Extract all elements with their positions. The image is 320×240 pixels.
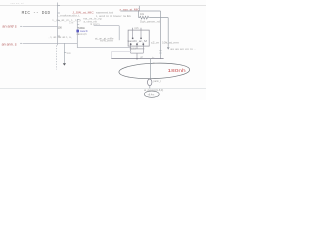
pin tick 2 (58, 12, 61, 14)
wire net2 horizontal (23, 42, 78, 44)
pin tick 1 (58, 5, 61, 7)
pin below 1 (130, 46, 132, 49)
svg-text:MIC -- DGD: MIC -- DGD (22, 11, 51, 16)
rail wire (111, 58, 163, 60)
svg-text:c2_m: c2_m (151, 42, 159, 45)
svg-text:sanmd,h: sanmd,h (76, 33, 87, 36)
svg-text:an ann. s: an ann. s (2, 43, 17, 47)
bracket bottom bar (131, 52, 144, 54)
wire stub down to resistor (138, 11, 140, 18)
pin tick c (77, 33, 79, 35)
pin tick (64, 52, 66, 54)
pin inner 2 (140, 30, 142, 39)
faint box top edge (111, 51, 131, 53)
ground arrow (63, 63, 66, 65)
pin tick (77, 18, 79, 20)
wire vertical right B (167, 18, 169, 47)
inductor L1 body (148, 79, 152, 86)
pin inner bottom 2 (136, 43, 138, 46)
svg-text:t,_m_at_m_t,_t,_y: t,_m_at_m_t,_t,_y (53, 19, 83, 22)
highlighted pin (blue) (76, 30, 79, 33)
svg-text:m/h_mm: m/h_mm (100, 40, 113, 43)
svg-text:kanchi_an_M: kanchi_an_M (128, 40, 147, 43)
bracket left side (130, 49, 132, 53)
wire branch vertical (63, 43, 65, 63)
top border rule (0, 5, 206, 7)
pin stub top 2 (140, 28, 142, 31)
bracket center lead (136, 53, 138, 59)
wire from resistor (150, 17, 168, 19)
svg-text:Dgh_param_nd: Dgh_param_nd (140, 21, 161, 24)
svg-text:parm_t: parm_t (153, 80, 161, 83)
svg-text:m: m (153, 63, 155, 65)
pin below 3 (142, 46, 144, 49)
dashed continuation wire (56, 45, 58, 69)
pin inner bottom 3 (142, 43, 144, 46)
wire to connector (77, 47, 130, 49)
svg-text:100: 100 (58, 26, 63, 29)
annotation ellipse small (144, 91, 159, 97)
wire into inductor (149, 59, 151, 79)
wire stub up (138, 6, 140, 11)
svg-text:180nh: 180nh (168, 68, 187, 73)
wire stub tick (20, 42, 22, 44)
bracket top bar (130, 48, 145, 50)
svg-text:1 2 3: 1 2 3 (131, 48, 137, 50)
pin inner bottom 1 (130, 43, 132, 46)
pin tick a (77, 24, 79, 26)
wire top net horizontal (120, 10, 160, 12)
resistor R1 (139, 16, 150, 19)
svg-text:mm: mm (67, 52, 71, 55)
junction dot (136, 58, 138, 60)
svg-text:+8.4m: +8.4m (148, 93, 155, 96)
pin below 2 (136, 46, 138, 49)
svg-text:t, and in it lower ra: t, and in it lower ra (96, 15, 127, 18)
wire vertical right A (160, 11, 162, 59)
connector U1 body (128, 30, 149, 46)
pin tick b (77, 26, 79, 28)
pin tick 3 (58, 20, 61, 22)
wire net1 horizontal (23, 25, 58, 27)
bracket right side (142, 49, 144, 53)
pin stub top 1 (132, 28, 134, 31)
svg-text:, t, at JE at t, s,: , t, at JE at t, s, (49, 36, 73, 39)
svg-text:1 m: 1 m (69, 21, 73, 24)
svg-text:t_makeaudio,t,: t_makeaudio,t, (57, 15, 80, 18)
svg-text:m/h: m/h (134, 27, 139, 30)
faint box left edge (110, 52, 112, 59)
wire mid vertical (118, 26, 120, 41)
svg-text:as as an on m ..: as as an on m .. (170, 48, 196, 51)
pin tick (150, 63, 152, 65)
svg-text:now me, mt: now me, mt (11, 2, 24, 5)
svg-text:10k_at_mm: 10k_at_mm (162, 41, 179, 44)
bottom border rule (0, 88, 206, 90)
wire below inductor (149, 86, 151, 89)
svg-text:an ant/ s: an ant/ s (2, 25, 17, 29)
bus wire vertical 2 (76, 19, 78, 47)
annotation ellipse (119, 62, 190, 80)
pin tick 4 (58, 35, 61, 37)
pin tick marks on vertical (159, 50, 161, 52)
svg-text:+-: +- (152, 57, 154, 59)
wire mid horizontal (94, 25, 120, 27)
bus wire vertical left (57, 3, 59, 46)
svg-text:1m: 1m (127, 15, 130, 18)
pin inner 1 (132, 30, 134, 39)
arrowhead end (167, 47, 170, 49)
wire stub tick (20, 25, 22, 27)
